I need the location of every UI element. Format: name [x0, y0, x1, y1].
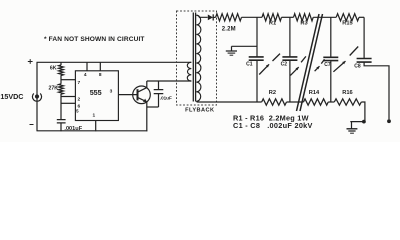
- capacitor C1 plates: [249, 57, 264, 60]
- svg-text:C2: C2: [281, 61, 288, 67]
- svg-text:C1: C1: [246, 61, 253, 67]
- transistor Q1 emitter with arrow: [138, 97, 147, 101]
- spark gap G1 between C1 and C2: [259, 64, 269, 74]
- output gap electrode right dot: [387, 119, 391, 123]
- svg-text:C1 - C8 .002uF 20kV: C1 - C8 .002uF 20kV: [233, 121, 313, 130]
- svg-text:FLYBACK: FLYBACK: [185, 107, 214, 113]
- spark gap G4 between C7 and C8: [333, 61, 345, 72]
- svg-text:R14: R14: [309, 90, 320, 96]
- wire pin7 to divider: [61, 79, 75, 81]
- node column C1 lower: [256, 60, 258, 102]
- svg-text:15VDC: 15VDC: [0, 92, 23, 101]
- spark gap G2 right of C2: [290, 67, 298, 75]
- resistor 27K: [59, 84, 64, 94]
- svg-text:R1: R1: [269, 21, 276, 27]
- svg-text:R15: R15: [342, 21, 352, 27]
- wire secondary bottom lead: [196, 100, 261, 103]
- pin 1 stub to ground rail: [95, 121, 97, 132]
- svg-text:R3: R3: [300, 21, 307, 27]
- transformer T1 primary winding: [187, 62, 191, 81]
- svg-text:4: 4: [84, 72, 87, 78]
- wire bottom ground rail: [37, 130, 148, 132]
- node column C1 upper: [256, 17, 258, 57]
- pin 4 stub: [86, 62, 88, 71]
- svg-text:1: 1: [93, 112, 96, 118]
- break slash B: [300, 14, 323, 111]
- flyback dashed enclosure: [177, 11, 217, 105]
- wire pin2 to divider: [61, 96, 75, 98]
- ground symbol output: [351, 122, 353, 129]
- svg-text:7: 7: [77, 80, 80, 86]
- svg-text:.01uF: .01uF: [160, 96, 172, 101]
- svg-text:R16: R16: [342, 90, 352, 96]
- resistor 2.2M: [216, 14, 242, 21]
- resistor R15: [336, 14, 359, 21]
- wire rail to 6K: [60, 62, 62, 65]
- node column C7 upper: [330, 17, 332, 57]
- wire bottom rail seg1: [261, 101, 263, 103]
- ground symbol left of C1: [231, 46, 233, 51]
- wire bottom rail to output gap: [350, 102, 365, 122]
- svg-text:2: 2: [77, 97, 80, 103]
- op-amp U1 555 timer box: [75, 71, 118, 121]
- resistor 6K: [59, 65, 64, 76]
- transistor Q1 collector: [138, 81, 147, 92]
- node column C8 upper: [363, 17, 365, 58]
- wire top rail seg4: [359, 16, 364, 18]
- node column C7 lower: [330, 61, 332, 102]
- spark gap G3 left of C7: [315, 66, 320, 71]
- svg-text:555: 555: [90, 88, 102, 97]
- wire emitter down to ground rail: [146, 102, 148, 132]
- wire top rail seg1: [242, 16, 263, 18]
- plus polarity mark: [28, 59, 33, 64]
- minus polarity mark: [30, 124, 34, 126]
- power jack J1 15VDC: [32, 93, 41, 101]
- capacitor C2 plates: [282, 57, 297, 60]
- capacitor C7 plates: [323, 57, 338, 60]
- wire bottom rail seg3: [328, 101, 334, 103]
- resistor R3: [294, 14, 314, 21]
- svg-text:2.2M: 2.2M: [222, 27, 236, 33]
- resistor R2: [262, 99, 287, 105]
- svg-text:3: 3: [110, 88, 113, 94]
- svg-text:27K: 27K: [48, 85, 58, 91]
- node column C2 lower: [289, 60, 291, 102]
- wire bottom rail seg2: [287, 101, 304, 103]
- transistor Q1 base bar: [137, 89, 139, 100]
- wire top rail +15V: [37, 61, 192, 63]
- transformer T1 secondary winding: [196, 15, 200, 101]
- svg-text:.001uF: .001uF: [64, 126, 82, 132]
- resistor R1: [262, 14, 282, 21]
- capacitor .01uF snubber: [154, 90, 164, 94]
- transistor Q1 circle: [133, 86, 151, 104]
- pin 3 wire to Q1 base: [118, 94, 137, 96]
- wire secondary top lead: [196, 15, 207, 17]
- pin 8 stub: [99, 62, 101, 71]
- wire collector rail: [147, 80, 192, 82]
- wire pin6 to divider: [61, 102, 75, 104]
- wire top rail seg2: [282, 16, 294, 18]
- svg-text:8: 8: [99, 72, 102, 78]
- transformer T1 core: [192, 13, 194, 102]
- wire left vertical supply: [36, 62, 38, 131]
- resistor R16: [334, 99, 361, 105]
- wire emitter tee to snubber cap: [147, 106, 159, 108]
- wire 27K down to C2 timing cap: [60, 94, 62, 120]
- capacitor C8 plates: [357, 59, 372, 63]
- wire ground tee: [232, 45, 258, 47]
- output gap electrode left dot: [362, 120, 366, 124]
- diode D1: [208, 15, 213, 21]
- svg-text:6K: 6K: [50, 65, 57, 71]
- svg-text:R2: R2: [269, 90, 276, 96]
- svg-text:C8: C8: [354, 64, 361, 70]
- wire cap to ground rail: [60, 123, 62, 131]
- wire C8 bottom to output: [364, 62, 389, 119]
- svg-text:C7: C7: [324, 62, 331, 68]
- svg-text:* FAN NOT SHOWN IN CIRCUIT: * FAN NOT SHOWN IN CIRCUIT: [44, 36, 145, 43]
- capacitor .001uF plates: [57, 120, 66, 123]
- break slash A: [297, 14, 320, 111]
- node column C2 upper: [289, 17, 291, 57]
- wire 6K to 27K: [60, 75, 62, 84]
- wire top rail seg3: [313, 16, 336, 18]
- resistor R14: [304, 99, 329, 105]
